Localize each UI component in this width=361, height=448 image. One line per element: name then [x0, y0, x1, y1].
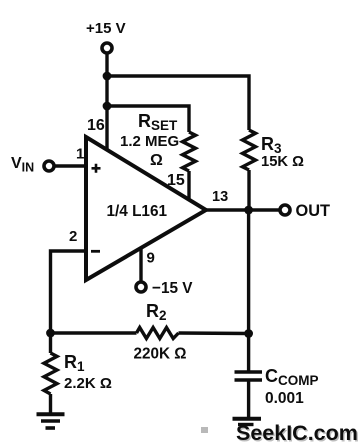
resistor R2 zigzag: [137, 328, 179, 339]
node junction at +15V rail / RSET branch: [103, 102, 112, 111]
node A feedback junction: [46, 329, 55, 338]
op-amp minus input marking: [91, 250, 100, 253]
wire: rail to RSET: [107, 106, 189, 132]
watermark speck: [201, 427, 208, 433]
resistor RSET 1.2 MEG zigzag: [183, 132, 196, 171]
wire: output node down to R2/CCOMP node: [247, 210, 250, 371]
-15 V terminal: [136, 282, 146, 292]
svg-text:16: 16: [87, 117, 105, 134]
node junction at +15V rail / R3 branch: [103, 72, 112, 81]
+15 V terminal: [102, 43, 112, 53]
svg-text:+15 V: +15 V: [86, 20, 126, 37]
svg-text:−15 V: −15 V: [152, 280, 193, 297]
svg-text:1: 1: [76, 146, 84, 163]
svg-text:1.2 MEG: 1.2 MEG: [120, 133, 179, 150]
svg-text:15K Ω: 15K Ω: [261, 153, 304, 170]
OUT terminal: [280, 205, 290, 215]
wire: output pin 13 to OUT: [204, 208, 280, 211]
wire: pin 2 feedback down to node A: [51, 251, 87, 333]
svg-text:0.001: 0.001: [265, 390, 304, 407]
wire: VIN to pin 1: [56, 164, 87, 167]
svg-text:2: 2: [69, 228, 77, 245]
wire: RSET to pin 15 on op-amp: [187, 171, 190, 201]
wire: pin 9 to -15V terminal: [139, 247, 142, 282]
VIN input terminal: [44, 161, 54, 171]
resistor R3 zigzag: [243, 130, 256, 170]
ground below CCOMP: [233, 419, 262, 425]
svg-text:9: 9: [147, 250, 155, 267]
svg-text:OUT: OUT: [296, 201, 331, 220]
svg-text:Ω: Ω: [150, 152, 163, 169]
node R2 / CCOMP junction: [244, 329, 253, 338]
op-amp U1 1/4 L161 triangle: [86, 137, 206, 280]
wire: R3 to output node: [247, 170, 250, 210]
svg-text:SeekIC.com: SeekIC.com: [236, 421, 358, 445]
svg-text:13: 13: [212, 189, 228, 205]
node output junction: [244, 206, 253, 215]
svg-text:2.2K Ω: 2.2K Ω: [64, 375, 112, 392]
capacitor CCOMP plates: [235, 372, 263, 380]
wire: CCOMP to ground: [247, 382, 250, 418]
ground below R1: [37, 414, 65, 428]
wire: R2 to CCOMP node: [179, 331, 249, 335]
resistor R1 zigzag: [44, 353, 57, 394]
wire: R1 to ground: [49, 394, 52, 413]
wire: node A to R2: [51, 331, 137, 334]
wire: top rail to R3: [107, 76, 249, 130]
wire: node A down to R1: [49, 333, 52, 353]
op-amp plus input marking: [92, 164, 101, 173]
wire: +15V down to op-amp top edge: [105, 55, 108, 152]
svg-text:220K Ω: 220K Ω: [134, 346, 187, 363]
svg-text:1/4 L161: 1/4 L161: [107, 203, 168, 220]
